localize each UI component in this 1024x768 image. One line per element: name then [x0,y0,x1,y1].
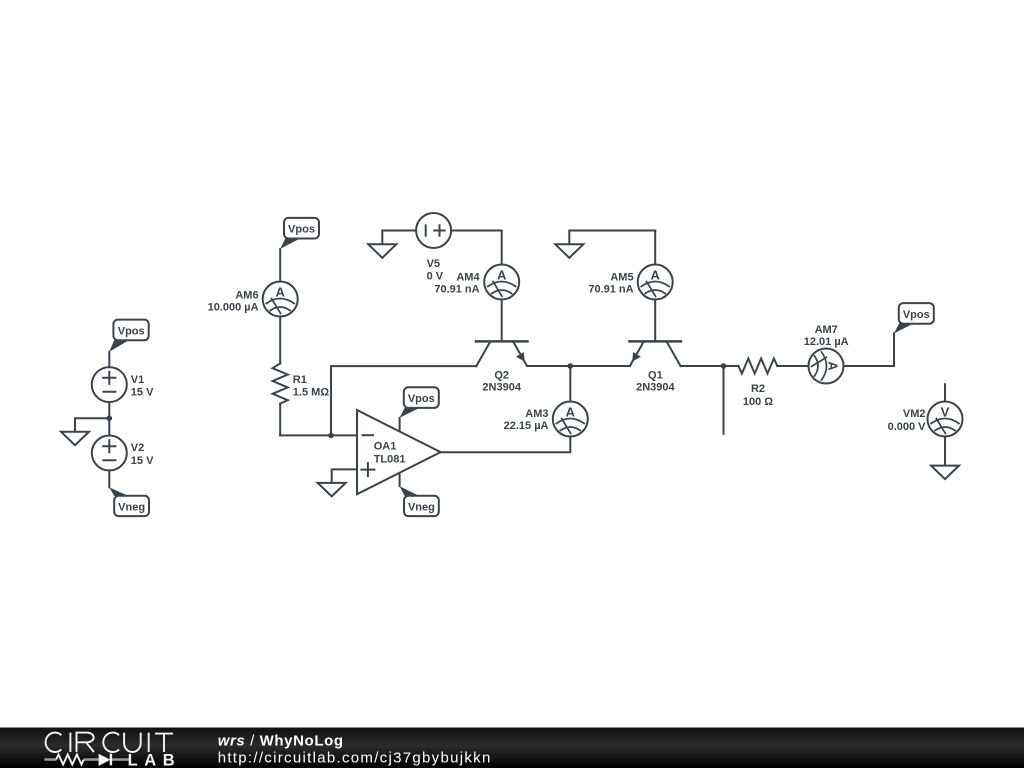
voltmeter VM2 [888,402,963,437]
node junction V1/V2/gnd [107,415,113,421]
wire Q2 emitter to Q1 emitter [527,365,630,367]
voltage source V2 [92,436,154,471]
wire VM2 stub [944,384,946,401]
svg-text:12.01 µA: 12.01 µA [804,336,849,348]
wire V1 to node [108,402,110,418]
wire Q1 collector to R2 [681,365,739,367]
flag Vpos (AM6 top) [280,218,319,249]
wire feedback up to Q2 collector [331,366,476,435]
wire node to ground [75,418,109,431]
logo CIRCUIT [46,733,173,752]
logo resistor-diode [44,754,129,766]
node junction R2 stub [721,363,727,369]
wire node to V2 [108,418,110,435]
svg-text:Q2: Q2 [494,369,509,381]
node junction emitters [568,363,574,369]
flag Vpos (V1 top) [109,320,148,352]
svg-text:wrs / WhyNoLog: wrs / WhyNoLog [218,732,344,749]
svg-text:Vpos: Vpos [288,224,315,236]
wire down to AM5 [654,231,656,265]
ground (VM2) [931,466,959,480]
svg-text:Q1: Q1 [648,369,663,381]
svg-text:Vneg: Vneg [408,501,435,513]
flag Vneg (op-amp V-) [400,486,439,516]
svg-text:Vneg: Vneg [118,501,145,513]
flag Vpos (output) [894,303,934,333]
wire AM3 to op-amp output [441,437,571,453]
ammeter AM4 [434,265,519,300]
svg-text:0.000 V: 0.000 V [888,421,927,433]
svg-text:AM3: AM3 [525,408,548,420]
transistor Q2 [476,341,527,393]
wire flag to AM6 [279,249,281,282]
svg-text:Vpos: Vpos [903,309,930,321]
wire stub down [723,366,725,434]
svg-text:22.15 µA: 22.15 µA [504,420,549,432]
svg-text:V: V [941,404,950,419]
wire AM7 to Vpos flag [844,333,895,366]
flag Vpos (op-amp V+) [400,387,439,418]
svg-text:A: A [276,284,286,299]
ground (op-amp) [318,483,346,497]
footer bar [0,728,1024,768]
svg-text:AM4: AM4 [456,272,480,284]
svg-text:A: A [566,404,576,419]
svg-text:VM2: VM2 [903,408,926,420]
svg-text:V5: V5 [427,258,440,270]
wire VM2 to ground [944,437,946,466]
wire R2 to AM7 [777,365,808,367]
svg-text:A: A [826,361,841,371]
svg-text:15 V: 15 V [131,387,154,399]
svg-text:AM6: AM6 [235,289,258,301]
svg-text:A: A [497,267,507,282]
op-amp V- pin [399,475,401,487]
wire V2 to Vneg flag [108,471,110,488]
svg-text:AM5: AM5 [610,272,633,284]
svg-text:A: A [651,267,661,282]
svg-text:70.91 nA: 70.91 nA [434,284,479,296]
wire R1 down [279,404,281,436]
ammeter AM7 (rotated) [804,324,849,384]
ammeter AM3 [504,402,588,437]
svg-text:http://circuitlab.com/cj37gbyb: http://circuitlab.com/cj37gbybujkkn [218,750,492,767]
svg-text:V2: V2 [131,442,144,454]
wire op-amp non-inverting input to ground [332,469,357,482]
svg-text:TL081: TL081 [374,454,406,466]
svg-text:R2: R2 [751,383,765,395]
wire R1 to op-amp inverting input [280,434,357,436]
ammeter AM5 [588,265,672,300]
resistor R2 [738,359,777,408]
svg-text:V1: V1 [131,374,144,386]
svg-text:LAB: LAB [128,752,182,768]
wire V5 to AM4 [451,231,502,265]
voltage source V5 [416,213,451,283]
svg-text:Vpos: Vpos [408,393,435,405]
svg-text:70.91 nA: 70.91 nA [588,284,633,296]
svg-text:Vpos: Vpos [118,325,145,337]
ground (V5) [368,231,416,258]
ground (AM5) [555,231,655,258]
svg-text:10.000 µA: 10.000 µA [208,301,259,313]
ammeter AM6 [208,282,298,317]
svg-text:AM7: AM7 [815,324,838,336]
svg-text:2N3904: 2N3904 [482,382,521,394]
transistor Q1 [630,341,681,393]
resistor R1 [273,363,330,403]
op-amp V+ pin [399,418,401,431]
svg-text:R1: R1 [293,374,307,386]
wire Vpos to V1 [108,352,110,367]
op-amp OA1 [357,410,441,494]
ground (left) [61,432,89,446]
voltage source V1 [92,367,154,402]
wire AM5 to Q1 base [654,300,656,342]
svg-text:0 V: 0 V [427,271,444,283]
wire emitters node to AM3 [569,366,571,402]
svg-text:100 Ω: 100 Ω [743,396,773,408]
wire AM6 to R1 [279,317,281,364]
svg-text:15 V: 15 V [131,455,154,467]
flag Vneg (V2 bottom) [109,487,149,516]
svg-text:1.5 MΩ: 1.5 MΩ [293,386,330,398]
node junction feedback [328,433,334,439]
wire AM4 to Q2 base [501,300,503,342]
svg-text:OA1: OA1 [374,441,397,453]
svg-text:2N3904: 2N3904 [636,382,675,394]
